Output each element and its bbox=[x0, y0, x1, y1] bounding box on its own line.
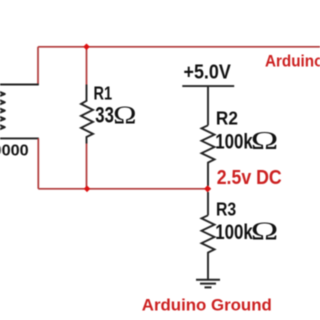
wire rail to R2 bbox=[207, 86, 209, 125]
svg-text:Arduino Ground: Arduino Ground bbox=[142, 296, 272, 315]
resistor R1 bbox=[81, 85, 93, 144]
coil L1 (microphone coil, cut off at left edge) bbox=[0, 92, 5, 129]
resistor R2 bbox=[202, 125, 215, 186]
node junction top (R1 / top rail) bbox=[83, 44, 90, 51]
svg-text:R2: R2 bbox=[216, 109, 238, 129]
svg-text:100k: 100k bbox=[215, 129, 253, 153]
resistor R3 bbox=[202, 215, 215, 279]
wire left vertical upper red bbox=[37, 47, 39, 85]
node junction bottom (R1 / bottom rail) bbox=[84, 186, 91, 193]
svg-text:2.5v DC: 2.5v DC bbox=[217, 166, 282, 189]
wire R1 bottom red bbox=[86, 144, 88, 189]
svg-text:Ω: Ω bbox=[113, 102, 136, 129]
wire coil bottom black bbox=[0, 137, 39, 139]
wire coil top black bbox=[0, 84, 39, 86]
node junction 2.5v (divider midpoint) bbox=[204, 185, 211, 192]
svg-text:R3: R3 bbox=[216, 199, 236, 219]
wire R1 top red bbox=[86, 47, 88, 85]
svg-text:Ω: Ω bbox=[251, 128, 279, 155]
wire bottom rail red bbox=[38, 188, 207, 190]
power rail bar bbox=[182, 85, 234, 87]
svg-text:100k: 100k bbox=[215, 220, 253, 244]
wire junction to R3 bbox=[207, 192, 209, 215]
svg-text:Ω: Ω bbox=[251, 218, 279, 245]
svg-text:Arduino: Arduino bbox=[265, 53, 320, 71]
svg-text:0000: 0000 bbox=[0, 143, 29, 160]
svg-text:33: 33 bbox=[95, 103, 114, 128]
wire left vertical lower red bbox=[37, 138, 39, 188]
wire top rail red bbox=[38, 46, 320, 48]
svg-text:R1: R1 bbox=[94, 84, 113, 104]
svg-text:+5.0V: +5.0V bbox=[184, 62, 232, 84]
ground symbol bbox=[196, 280, 220, 288]
